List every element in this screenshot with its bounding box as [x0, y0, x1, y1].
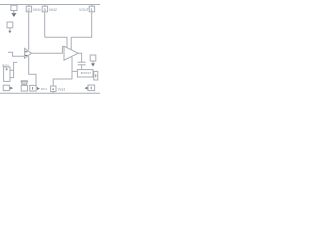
capacitor C2 (left, floating with ground)	[7, 22, 13, 28]
wire pin1 stem	[91, 5, 93, 7]
ground triangle right C4	[91, 63, 95, 66]
op-amp U1 (small, left)	[25, 48, 32, 58]
wire bracket right of battery	[10, 62, 17, 70]
ground arrow left C2	[8, 31, 11, 33]
wire U1 output to U2	[31, 47, 64, 54]
pin 2 box	[26, 6, 31, 12]
top supply rail	[0, 4, 100, 6]
glyph inside battery box	[5, 68, 8, 70]
svg-text:BOOST: BOOST	[81, 71, 91, 75]
glyph inside connector box 2	[32, 87, 34, 90]
wire U2 output down	[78, 53, 81, 62]
wire node VIN2 horizontal	[45, 37, 67, 48]
arrow right of connector bottom-left	[10, 87, 13, 90]
U1 input marks	[25, 52, 27, 56]
pin 1 box	[89, 6, 94, 12]
capacitor C3 plates	[78, 61, 86, 63]
wire U2 power down to pin4	[72, 57, 77, 71]
wire	[92, 61, 94, 63]
glyph inside right box	[95, 74, 97, 77]
svg-text:NC1: NC1	[41, 87, 48, 91]
svg-text:VIN2: VIN2	[49, 8, 57, 12]
arrow left of connector bottom-right	[85, 87, 88, 90]
wire	[9, 28, 11, 31]
wire pin3 down	[44, 12, 46, 37]
connector box bottom-right	[88, 85, 95, 91]
svg-text:BCN: BCN	[2, 63, 9, 67]
wire pin3 stem	[44, 5, 46, 7]
wire C3 to boost	[81, 65, 83, 70]
battery B1 tall box bottom-left	[4, 67, 10, 81]
wire	[13, 11, 15, 14]
wire pin4 to rail	[52, 92, 54, 94]
svg-text:VIN1: VIN1	[33, 8, 41, 12]
wire pin2 stem	[28, 5, 30, 7]
connector box 2 bottom	[30, 85, 36, 91]
ground triangle top-left	[12, 14, 16, 17]
ground	[12, 12, 17, 14]
capacitor C1 (top-left, rail to ground)	[11, 5, 17, 10]
capacitor C4 (right, to ground)	[90, 55, 96, 61]
speaker SP1 trapezoid	[21, 81, 28, 85]
svg-text:VOUT: VOUT	[79, 8, 89, 12]
bottom ground rail	[0, 92, 100, 94]
boost converter box	[77, 70, 93, 77]
pin 4 box (bottom)	[51, 86, 56, 92]
component box right of boost	[94, 71, 98, 80]
pin 3 box	[42, 6, 47, 12]
op-amp U2 (large, right)	[64, 46, 78, 60]
wire U1 bottom down	[29, 56, 36, 85]
wire feedback horizontal	[71, 12, 92, 50]
connector box bottom-left	[3, 85, 9, 90]
wire input step	[8, 52, 25, 56]
speaker box	[21, 85, 27, 91]
arrow right of connector 2	[37, 87, 40, 90]
wire pin2 down	[28, 12, 30, 50]
svg-text:Vss1: Vss1	[58, 87, 66, 91]
glyph inside bottom-right box	[90, 87, 92, 90]
